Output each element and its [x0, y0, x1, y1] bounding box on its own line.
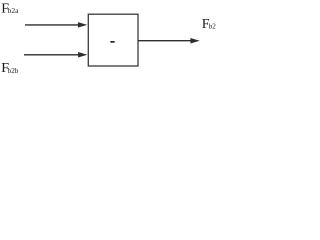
- wire input arrow Fb2a: [25, 22, 87, 28]
- svg-text:b2a: b2a: [8, 6, 20, 15]
- wire output arrow Fb2: [138, 38, 200, 44]
- minus sign inside block: [110, 41, 114, 43]
- svg-text:b2b: b2b: [8, 67, 19, 75]
- node Fb2 label: [202, 17, 216, 32]
- node Fb2a label: [1, 2, 19, 17]
- svg-text:b2: b2: [209, 23, 217, 31]
- wire input arrow Fb2b: [24, 52, 87, 58]
- subtractor block U1: [88, 14, 138, 66]
- node Fb2b label: [1, 61, 19, 76]
